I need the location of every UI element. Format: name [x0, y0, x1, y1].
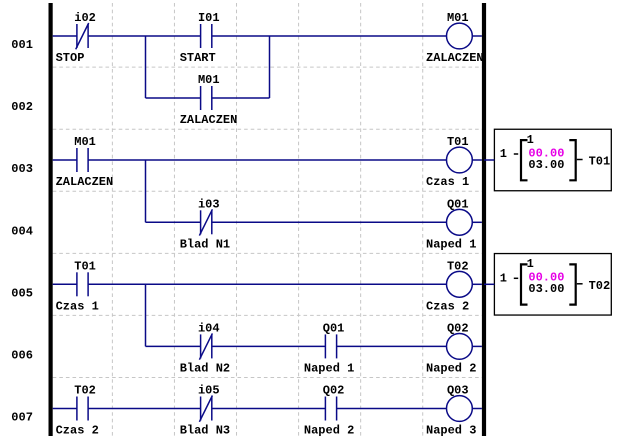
svg-text:i03: i03 [198, 197, 220, 211]
contact i02 (NC) "STOP" [56, 11, 96, 65]
svg-text:Naped 3: Naped 3 [426, 424, 476, 436]
svg-text:1: 1 [527, 257, 534, 271]
svg-text:T01: T01 [447, 135, 469, 149]
svg-text:Q02: Q02 [447, 321, 469, 335]
wire rung001: coil M01 to right rail [472, 35, 482, 37]
svg-text:Q01: Q01 [323, 321, 345, 335]
svg-text:ZALACZEN: ZALACZEN [180, 113, 238, 127]
wire rung007: coil Q03 to right rail [472, 408, 482, 410]
wire rung002: M01 contact to branch [212, 97, 270, 99]
svg-text:Naped 2: Naped 2 [426, 362, 476, 376]
wire rung006: coil Q02 to right rail [472, 345, 482, 347]
coil T01 "Czas 1" [426, 135, 472, 189]
coil Q03 "Naped 3" [426, 384, 476, 436]
wire rung006: branch to i04 [146, 345, 201, 347]
wire rung005: left rail to T01 contact [53, 283, 77, 285]
svg-text:1: 1 [500, 147, 507, 161]
coil M01 "ZALACZEN" [426, 11, 484, 65]
contact T01 (NO) "Czas 1" [56, 259, 99, 313]
svg-text:START: START [180, 51, 216, 65]
contact I01 (NO) "START" [180, 11, 220, 65]
svg-text:Q02: Q02 [323, 384, 345, 398]
svg-text:M01: M01 [447, 11, 469, 25]
svg-text:T02: T02 [74, 384, 96, 398]
svg-text:005: 005 [11, 286, 33, 300]
svg-text:M01: M01 [74, 135, 96, 149]
svg-text:03.00: 03.00 [528, 282, 564, 296]
wire rung006: Q01 to coil Q02 [337, 345, 447, 347]
svg-text:T01: T01 [589, 155, 611, 169]
wire rung003: left rail to M01 contact [53, 159, 77, 161]
wire branch down vertical (rung005-006) [145, 284, 147, 346]
svg-text:004: 004 [11, 224, 33, 238]
wire rung007: i05 to Q02 contact [212, 408, 326, 410]
svg-text:Naped 1: Naped 1 [426, 238, 476, 252]
contact M01 (NO) "ZALACZEN" [56, 135, 114, 189]
svg-text:Czas 1: Czas 1 [426, 175, 469, 189]
svg-text:i05: i05 [198, 384, 220, 398]
coil Q02 "Naped 2" [426, 321, 476, 375]
svg-text:Czas 1: Czas 1 [56, 300, 99, 314]
svg-text:006: 006 [11, 348, 33, 362]
contact T02 (NO) "Czas 2" [56, 384, 99, 436]
svg-text:001: 001 [11, 38, 33, 52]
timer function block T02 [484, 254, 611, 315]
wire rung007: T02 to i05 [88, 408, 201, 410]
svg-text:Blad N2: Blad N2 [180, 362, 230, 376]
svg-text:M01: M01 [198, 73, 220, 87]
left power rail [49, 3, 53, 436]
svg-text:T02: T02 [589, 279, 611, 293]
svg-text:ZALACZEN: ZALACZEN [426, 51, 484, 65]
wire rung001: left rail to i02 [53, 35, 77, 37]
svg-text:Naped 2: Naped 2 [304, 424, 354, 436]
svg-text:Czas 2: Czas 2 [426, 300, 469, 314]
svg-text:T02: T02 [447, 259, 469, 273]
contact Q02 (NO) "Naped 2" [304, 384, 354, 436]
contact i05 (NC) "Blad N3" [180, 384, 230, 436]
wire rung003: coil T01 to right rail [472, 159, 482, 161]
svg-text:007: 007 [11, 411, 33, 425]
contact Q01 (NO) "Naped 1" [304, 321, 354, 375]
wire rung004: coil Q01 to right rail [472, 221, 482, 223]
coil T02 "Czas 2" [426, 259, 472, 313]
svg-text:Blad N3: Blad N3 [180, 424, 230, 436]
right power rail [482, 3, 486, 436]
wire rung007: left rail to T02 contact [53, 408, 77, 410]
wire rung007: Q02 to coil Q03 [337, 408, 447, 410]
contact i04 (NC) "Blad N2" [180, 321, 230, 375]
contact i03 (NC) "Blad N1" [180, 197, 230, 251]
wire rung005: T01 to coil T02 [88, 283, 446, 285]
wire branch down vertical (rung003-004) [145, 160, 147, 222]
wire rung004: branch to i03 [146, 221, 201, 223]
wire rung003: M01 to coil T01 [88, 159, 446, 161]
wire rung006: i04 to Q01 contact [212, 345, 326, 347]
contact M01 (NO) "ZALACZEN" [180, 73, 238, 127]
svg-text:Naped 1: Naped 1 [304, 362, 354, 376]
wire parallel branch right vertical (rung002-001) [269, 36, 271, 98]
svg-text:Q03: Q03 [447, 384, 469, 398]
svg-text:STOP: STOP [56, 51, 85, 65]
timer function block T01 [484, 129, 611, 191]
wire rung002: branch to M01 contact [146, 97, 201, 99]
svg-text:I01: I01 [198, 11, 220, 25]
svg-text:1: 1 [527, 133, 534, 147]
svg-text:Blad N1: Blad N1 [180, 238, 230, 252]
wire rung001: i02 to I01 [88, 35, 201, 37]
wire rung005: coil T02 to right rail [472, 283, 482, 285]
svg-text:Q01: Q01 [447, 197, 469, 211]
svg-text:i04: i04 [198, 321, 220, 335]
wire parallel branch left vertical (rung001-002) [145, 36, 147, 98]
coil Q01 "Naped 1" [426, 197, 476, 251]
svg-text:1: 1 [500, 271, 507, 285]
wire rung001: I01 to coil M01 [212, 35, 447, 37]
svg-text:Czas 2: Czas 2 [56, 424, 99, 436]
svg-text:i02: i02 [74, 11, 96, 25]
wire rung004: i03 to coil Q01 [212, 221, 447, 223]
svg-text:03.00: 03.00 [528, 158, 564, 172]
svg-text:002: 002 [11, 100, 33, 114]
svg-text:ZALACZEN: ZALACZEN [56, 175, 114, 189]
svg-text:003: 003 [11, 162, 33, 176]
svg-text:T01: T01 [74, 259, 96, 273]
